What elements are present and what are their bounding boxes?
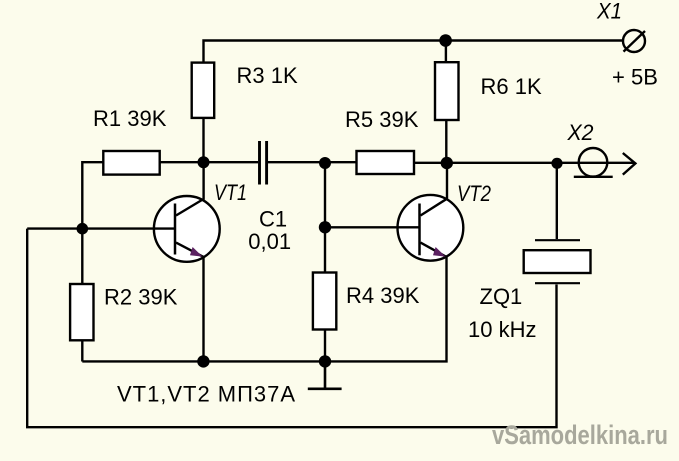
wire R2 bottom [81, 340, 83, 361]
terminal X1 [623, 30, 645, 52]
VT1 emitter arrow [190, 247, 203, 257]
node VT2 base [319, 221, 331, 233]
resistor R2 [70, 284, 93, 340]
svg-text:VT2: VT2 [457, 181, 491, 206]
svg-text:R5 39K: R5 39K [345, 107, 419, 132]
wire VT1 base row [27, 227, 175, 229]
node ground [319, 355, 331, 367]
wire VT1 collector [176, 162, 204, 216]
node R6/R5/out [441, 157, 453, 169]
resistor R5 [357, 151, 415, 174]
wire VT2 collector [421, 163, 448, 216]
node X2/crystal [551, 158, 562, 169]
svg-text:X1: X1 [596, 0, 622, 24]
VT2 emitter arrow [433, 247, 446, 257]
node top rail [439, 34, 452, 47]
wire R5 to X2 arrow [414, 162, 634, 164]
wire VT2 base [325, 226, 420, 228]
wire R3 bottom to node [202, 118, 204, 162]
transistor VT2 base bar [418, 204, 421, 256]
svg-text:0,01: 0,01 [248, 229, 291, 254]
node VT1 emitter bottom [197, 355, 209, 367]
wire VT1 emitter [176, 243, 204, 362]
node VT1 base [77, 223, 89, 235]
svg-text:R2 39K: R2 39K [104, 285, 178, 310]
resistor R1 [103, 151, 159, 175]
resistor R4 [313, 273, 336, 330]
wire X2 node down to crystal [556, 163, 558, 239]
svg-text:VT1: VT1 [214, 180, 247, 205]
wire top rail [204, 41, 623, 63]
svg-text:X2: X2 [567, 120, 594, 145]
svg-text:C1: C1 [259, 206, 287, 231]
node C1/R5 [319, 157, 331, 169]
wire bottom emitter row [82, 256, 446, 361]
transistor VT1 base bar [174, 204, 177, 255]
svg-text:R3 1K: R3 1K [237, 63, 298, 88]
wire outer feedback loop [27, 229, 556, 428]
resistor R3 [192, 63, 215, 118]
wire R1 left to base column [82, 162, 103, 284]
wire R4 bottom [324, 330, 326, 362]
node R3/R1/C1 [198, 156, 210, 168]
transistor VT1 [154, 196, 220, 262]
svg-text:+ 5В: + 5В [612, 65, 658, 90]
svg-text:R4 39K: R4 39K [346, 283, 420, 308]
svg-text:ZQ1: ZQ1 [480, 284, 523, 309]
wire R1 right to node [160, 161, 204, 163]
wire VT2 emitter [421, 243, 446, 257]
wire C1 to R5 [267, 161, 357, 163]
crystal ZQ1 [535, 239, 580, 241]
capacitor C1 [260, 141, 267, 185]
wire node to C1 [204, 161, 259, 163]
wire R6 top [445, 41, 447, 63]
transistor VT2 [398, 195, 464, 261]
wire R6 bottom to node [445, 120, 447, 163]
resistor R6 [435, 62, 459, 120]
svg-text:R1 39K: R1 39K [93, 106, 167, 131]
wire middle column [324, 163, 326, 273]
svg-text:R6 1K: R6 1K [481, 74, 542, 99]
ground [308, 361, 342, 388]
svg-text:10 kHz: 10 kHz [468, 317, 536, 342]
svg-text:vSamodelkina.ru: vSamodelkina.ru [492, 420, 668, 450]
terminal X2 [579, 148, 608, 177]
svg-text:VT1,VT2 МП37А: VT1,VT2 МП37А [117, 382, 295, 407]
